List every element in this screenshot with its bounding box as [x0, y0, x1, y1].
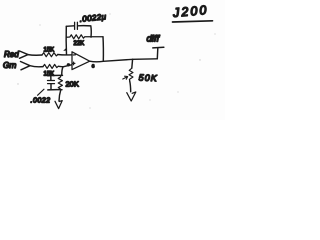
label J200 — [171, 3, 212, 22]
pot wiper arrow — [123, 76, 128, 79]
resistor R2 22K feedback — [67, 35, 104, 39]
wire Grn to R3 — [30, 66, 43, 67]
svg-text:50K: 50K — [138, 73, 158, 84]
svg-text:.0022: .0022 — [31, 97, 51, 104]
svg-text:Red: Red — [4, 50, 19, 59]
op-amp minus sign — [73, 54, 75, 56]
op-amp plus sign — [72, 62, 75, 65]
resistor R1 15K — [42, 53, 58, 57]
op-amp U1 — [72, 52, 90, 70]
node junction dot — [67, 63, 70, 66]
pin 2 mark — [63, 48, 66, 51]
svg-text:J200: J200 — [171, 3, 209, 20]
wire feedback to output node — [102, 37, 104, 62]
svg-text:22K: 22K — [74, 41, 85, 47]
scan speckles (decorative) — [17, 13, 215, 108]
ground (left) — [55, 101, 62, 109]
terminal diff T-bar — [153, 46, 164, 49]
wire R3 to non-inverting input — [59, 65, 73, 67]
wire junction down to RC — [62, 67, 63, 76]
wire pot to ground right — [130, 81, 131, 92]
svg-text:Grn: Grn — [3, 61, 17, 70]
svg-text:15K: 15K — [44, 72, 55, 78]
wire op-amp output — [90, 59, 158, 62]
wire down to ground left — [59, 90, 61, 101]
resistor R4 20K — [58, 75, 62, 89]
svg-text:.0022μ: .0022μ — [79, 12, 107, 24]
wire R1 to inverting input — [58, 54, 72, 56]
resistor R3 15K — [43, 64, 58, 68]
svg-text:diff: diff — [147, 34, 161, 45]
wire Red input arrow — [20, 51, 29, 58]
ground (right) — [127, 92, 136, 101]
wire C2 label pointer — [38, 89, 45, 95]
wire RC top node — [48, 74, 63, 76]
potentiometer R5 50K — [129, 68, 133, 81]
capacitor C2 plates — [48, 81, 55, 84]
wire diff terminal riser — [156, 48, 159, 59]
svg-text:6: 6 — [92, 63, 95, 69]
wire Red to R1 — [28, 54, 42, 57]
wire RC bottom node — [48, 89, 62, 91]
svg-text:20K: 20K — [66, 80, 79, 89]
capacitor C2 bottom lead — [50, 84, 52, 90]
capacitor C1 plates — [75, 22, 78, 29]
capacitor C2 top lead — [50, 76, 52, 81]
wire Grn input arrow — [21, 62, 31, 70]
svg-text:15K: 15K — [44, 48, 55, 54]
wire cap branch right — [78, 26, 91, 38]
wire pot riser — [131, 59, 134, 68]
wire cap branch left — [66, 25, 74, 28]
wire feedback riser — [65, 26, 67, 55]
